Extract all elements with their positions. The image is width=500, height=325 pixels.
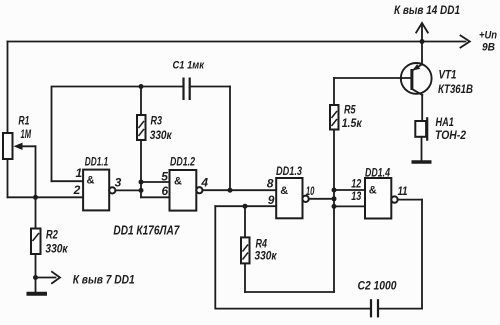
svg-text:DD1.4: DD1.4: [365, 165, 390, 179]
junction pin6 node: [139, 188, 144, 193]
power arrow К выв 14 DD1: [416, 23, 428, 42]
svg-text:VT1: VT1: [439, 68, 457, 82]
arrowhead +Un: [461, 36, 470, 48]
capacitor C2: [371, 299, 422, 317]
resistor R2: [31, 197, 41, 293]
resistor R4: [241, 206, 334, 292]
svg-text:С1 1мк: С1 1мк: [173, 60, 206, 72]
svg-text:DD1.1: DD1.1: [85, 155, 109, 169]
wire base line: [334, 77, 411, 79]
wire pin2 rail: [8, 196, 84, 198]
svg-text:К выв 14 DD1: К выв 14 DD1: [394, 3, 460, 17]
svg-text:DD1 К176ЛА7: DD1 К176ЛА7: [113, 223, 180, 237]
gate DD1.1: [83, 170, 141, 211]
transistor VT1: [401, 42, 432, 122]
svg-text:К выв 7 DD1: К выв 7 DD1: [73, 273, 135, 287]
svg-text:&: &: [280, 185, 288, 197]
wire DD1.3 out / DD1.4 in column: [333, 130, 335, 293]
svg-text:9В: 9В: [482, 42, 495, 54]
svg-text:&: &: [87, 175, 95, 187]
svg-text:330к: 330к: [45, 242, 68, 256]
svg-text:1М: 1М: [21, 127, 32, 141]
junction pin5 node: [139, 180, 144, 185]
svg-text:8: 8: [267, 177, 274, 191]
gate DD1.2: [141, 170, 276, 211]
svg-text:R3: R3: [151, 114, 163, 128]
svg-text:330к: 330к: [255, 249, 278, 263]
svg-text:4: 4: [200, 175, 208, 189]
capacitor C1: [184, 78, 231, 101]
wire inner top rail: [52, 87, 184, 182]
junction pin12 node: [332, 188, 337, 193]
gate DD1.4: [334, 178, 422, 219]
svg-text:3: 3: [115, 176, 122, 190]
junction R4 top node: [243, 204, 248, 209]
junction R1/R2 node: [33, 195, 38, 200]
junction pin13 node: [332, 204, 337, 209]
svg-text:13: 13: [351, 189, 361, 203]
svg-text:DD1.3: DD1.3: [276, 164, 302, 178]
svg-text:1: 1: [76, 166, 83, 180]
wire C2 to pin 11: [421, 200, 423, 309]
R1 wiper arrow: [14, 143, 36, 198]
svg-text:НА1: НА1: [436, 115, 455, 129]
wire pin9 bottom loop: [215, 206, 371, 308]
wire pin1 line: [52, 180, 84, 182]
svg-text:&: &: [174, 176, 182, 188]
gate DD1.3: [215, 178, 334, 218]
svg-text:6: 6: [162, 184, 169, 198]
junction R2 bottom node: [33, 275, 38, 280]
svg-text:+Un: +Un: [479, 30, 497, 42]
svg-text:R1: R1: [18, 113, 29, 127]
svg-text:1.5к: 1.5к: [342, 116, 363, 130]
wire C1 feedback down: [229, 87, 231, 191]
junction C1/pin8 node: [228, 188, 233, 193]
resistor R3: [137, 87, 146, 198]
svg-text:DD1.2: DD1.2: [170, 155, 195, 169]
wire left rail down to R1: [7, 42, 9, 134]
svg-text:R5: R5: [344, 103, 356, 117]
potentiometer R1: [3, 133, 13, 197]
svg-text:9: 9: [268, 193, 275, 207]
svg-text:10: 10: [306, 184, 315, 198]
arrow К выв 7 DD1: [36, 272, 61, 283]
svg-text:R2: R2: [46, 227, 58, 241]
resistor R5: [330, 78, 339, 130]
svg-text:2: 2: [73, 183, 81, 197]
speaker HA1: [415, 117, 427, 160]
ground under HA1: [412, 160, 432, 164]
svg-text:КТ361В: КТ361В: [438, 82, 473, 96]
svg-text:330к: 330к: [150, 128, 173, 142]
junction top rail / VT1 emitter: [420, 39, 425, 44]
wire top +Un rail: [8, 41, 466, 43]
junction R3 top: [139, 84, 144, 89]
junction pin10 node: [332, 196, 337, 201]
svg-text:ТОН-2: ТОН-2: [435, 128, 466, 142]
svg-text:5: 5: [161, 169, 168, 183]
svg-text:&: &: [369, 185, 377, 197]
svg-text:11: 11: [398, 184, 408, 198]
ground under R2: [27, 292, 48, 296]
svg-text:С2 1000: С2 1000: [358, 279, 397, 293]
